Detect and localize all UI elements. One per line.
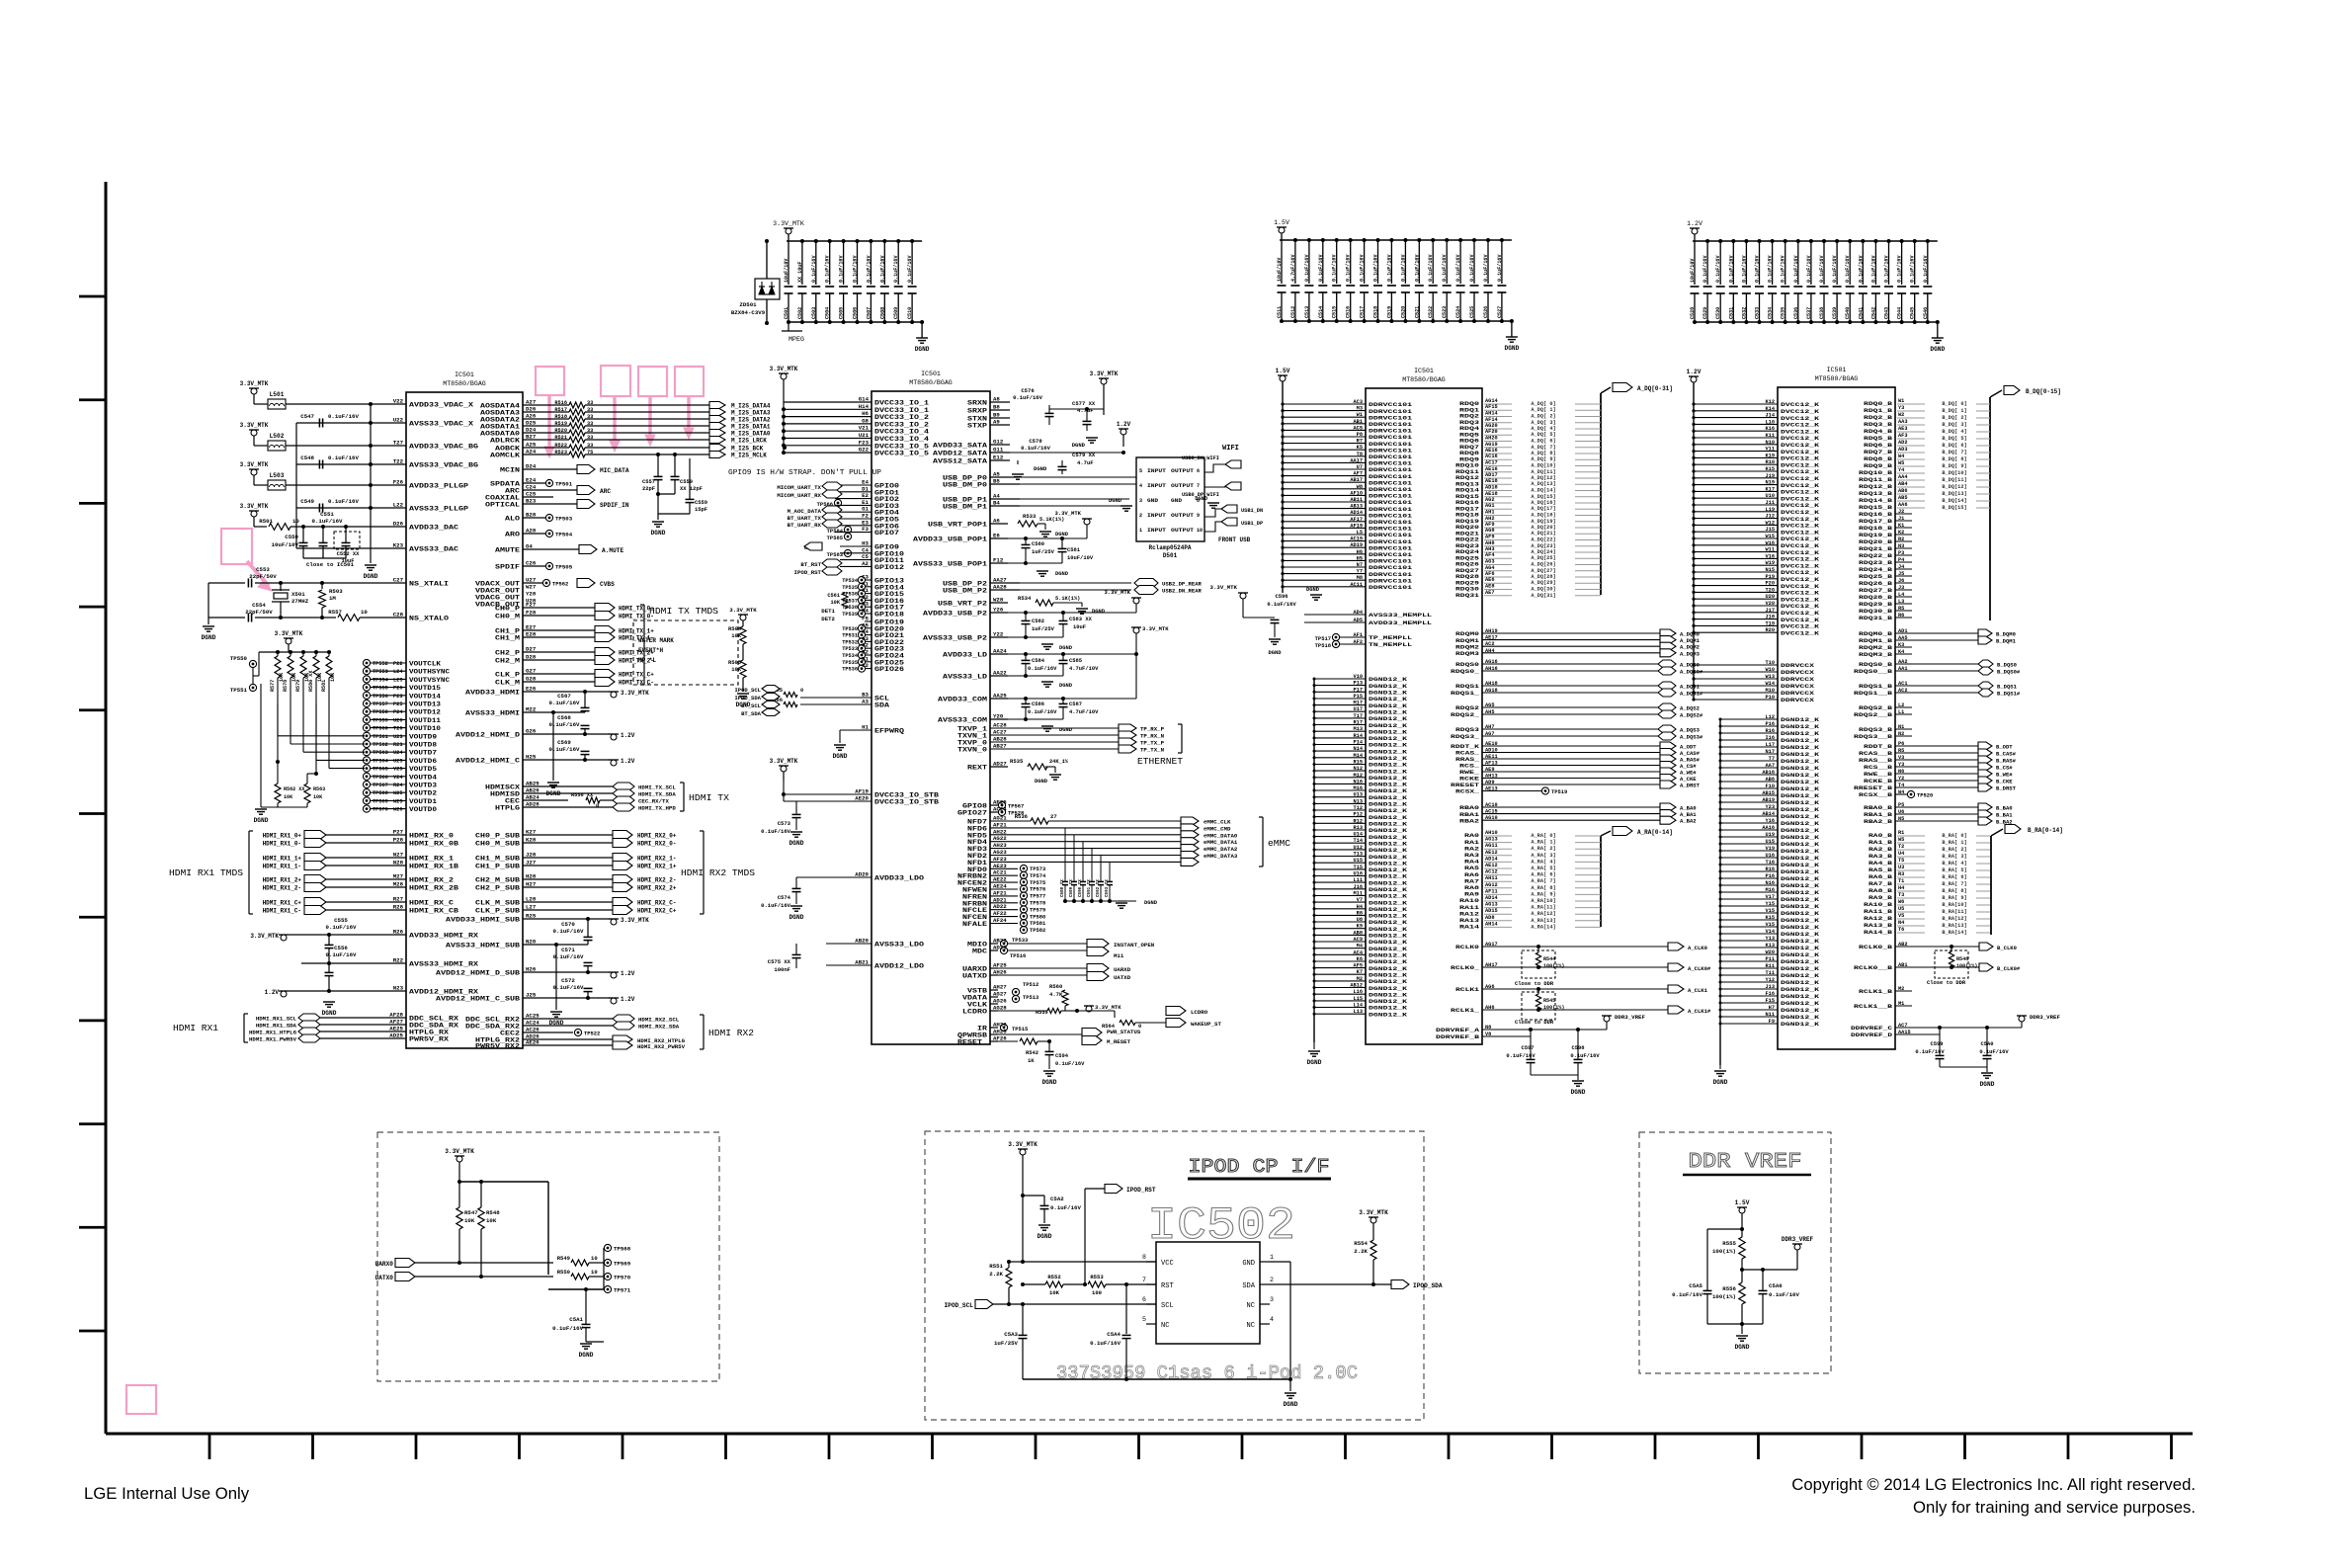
- svg-text:0.1uF/16V: 0.1uF/16V: [1570, 1052, 1600, 1059]
- svg-text:W12: W12: [1766, 520, 1775, 526]
- resistor R542 1K: [998, 1040, 1018, 1042]
- wire DGND12_K pin M12: [1314, 777, 1366, 779]
- svg-text:IC502: IC502: [1147, 1200, 1295, 1252]
- svg-text:10K: 10K: [731, 632, 742, 639]
- wire DGND12_K pin T16: [1720, 864, 1778, 866]
- svg-text:AE18: AE18: [1485, 491, 1498, 497]
- svg-text:AD19: AD19: [1350, 542, 1363, 548]
- svg-text:V15: V15: [1766, 908, 1775, 914]
- svg-text:AVDD33_VDAC_X: AVDD33_VDAC_X: [409, 402, 473, 409]
- svg-text:T26: T26: [393, 726, 402, 732]
- annotation pink arrow 4: [687, 396, 690, 428]
- wire AVSS vertical bus: [370, 404, 372, 548]
- test point TP568: [604, 1244, 611, 1251]
- svg-text:U17: U17: [1354, 706, 1363, 712]
- svg-text:R519: R519: [554, 421, 567, 427]
- svg-text:10K: 10K: [486, 1217, 497, 1224]
- svg-text:C561: C561: [827, 593, 840, 599]
- wire DDRVCC101 pin Y7: [1283, 573, 1366, 575]
- svg-text:DGND: DGND: [1735, 1344, 1750, 1351]
- svg-text:U15: U15: [1354, 858, 1363, 864]
- svg-text:R547: R547: [464, 1209, 478, 1216]
- svg-text:10: 10: [361, 609, 368, 616]
- svg-text:0.1uF/16V: 0.1uF/16V: [1755, 255, 1761, 283]
- svg-text:5: 5: [1142, 1316, 1146, 1323]
- net bracket HDMI TX: [683, 783, 685, 811]
- svg-text:3.3V_MTK: 3.3V_MTK: [275, 630, 303, 637]
- svg-text:AE18: AE18: [1485, 478, 1498, 484]
- svg-text:AVDD33_USB_P2: AVDD33_USB_P2: [923, 611, 987, 618]
- svg-text:SPDATA: SPDATA: [490, 481, 520, 488]
- svg-text:R545: R545: [1543, 998, 1555, 1004]
- svg-text:AD14: AD14: [1485, 895, 1498, 901]
- svg-text:7: 7: [1197, 483, 1200, 489]
- svg-text:TP571: TP571: [614, 1287, 631, 1294]
- wire GPIO18 with test point TP539: [858, 610, 865, 617]
- svg-text:R20: R20: [1766, 627, 1775, 633]
- svg-text:DGND12_K: DGND12_K: [1781, 882, 1820, 889]
- svg-text:T20: T20: [1766, 587, 1775, 593]
- svg-text:AE12: AE12: [1485, 863, 1498, 868]
- svg-text:N13: N13: [1354, 798, 1363, 804]
- svg-text:K19: K19: [1766, 453, 1775, 458]
- svg-text:G8: G8: [862, 417, 869, 424]
- wire DGND12_K bus B block: [1719, 719, 1721, 1065]
- svg-text:B_RA[ 1]: B_RA[ 1]: [1942, 840, 1966, 846]
- wire DDRVCC101 pin R7: [1283, 443, 1366, 445]
- svg-text:DDRVCC101: DDRVCC101: [1369, 584, 1413, 591]
- svg-text:AG3: AG3: [1485, 559, 1494, 565]
- svg-text:AD8: AD8: [1485, 915, 1494, 921]
- svg-text:RRESET_B: RRESET_B: [1854, 784, 1893, 791]
- svg-text:10K: 10K: [464, 1217, 475, 1224]
- svg-text:10uF/10V: 10uF/10V: [1277, 257, 1283, 282]
- wire DGND12_K pin U8: [1314, 921, 1366, 923]
- svg-text:DVCC33_IO_4: DVCC33_IO_4: [874, 436, 929, 443]
- svg-text:L503: L503: [270, 472, 285, 479]
- svg-text:0.1uF/16V: 0.1uF/16V: [328, 454, 359, 461]
- svg-text:AF17: AF17: [1350, 517, 1363, 523]
- svg-text:DGND12_K: DGND12_K: [1781, 917, 1820, 924]
- svg-text:1.5V: 1.5V: [1274, 219, 1289, 226]
- test point TP567 / pin R24 VOUTD3: [363, 781, 370, 787]
- svg-text:10uF/10V: 10uF/10V: [272, 541, 299, 548]
- svg-text:A_DQ[ 0]: A_DQ[ 0]: [1531, 401, 1555, 407]
- svg-text:RDQ11_B: RDQ11_B: [1859, 476, 1893, 483]
- wire DDRVCC101 pin W8: [1283, 488, 1366, 490]
- svg-text:3.3V_MTK: 3.3V_MTK: [770, 366, 798, 372]
- ruler tick bottom 8: [931, 1434, 934, 1459]
- connector flag B_CLK0: [1979, 943, 1993, 950]
- svg-text:A_RA[ 6]: A_RA[ 6]: [1531, 872, 1555, 878]
- ruler tick bottom 2: [311, 1434, 314, 1459]
- svg-text:DVCC33_IO_STB: DVCC33_IO_STB: [874, 792, 939, 799]
- svg-text:DDR3_VREF: DDR3_VREF: [1782, 1236, 1814, 1243]
- svg-text:AOSDATA1: AOSDATA1: [480, 424, 520, 431]
- svg-text:U12: U12: [1354, 845, 1363, 851]
- ruler tick bottom 7: [828, 1434, 831, 1459]
- annotation pink arrow 5 to X501: [247, 561, 269, 586]
- wire DGND12_K pin R11: [1720, 967, 1778, 969]
- svg-text:2.2K: 2.2K: [1354, 1248, 1368, 1255]
- svg-text:C568: C568: [557, 714, 571, 721]
- connector flag USB1_DN: [1221, 505, 1237, 513]
- svg-text:T17: T17: [1354, 713, 1363, 719]
- ground DGND below I2C: [839, 730, 841, 743]
- svg-text:RA10_B: RA10_B: [1864, 901, 1893, 908]
- svg-text:0.1uF/16V: 0.1uF/16V: [1870, 255, 1876, 283]
- svg-text:C533: C533: [1755, 307, 1761, 319]
- svg-text:0.1uF/16V: 0.1uF/16V: [1400, 254, 1406, 282]
- svg-text:RDQ6_B: RDQ6_B: [1864, 442, 1893, 449]
- capacitor C529: [1706, 241, 1708, 285]
- svg-text:DGND12_K: DGND12_K: [1781, 862, 1820, 868]
- svg-text:1uF/25V: 1uF/25V: [994, 1340, 1019, 1347]
- svg-text:BT_SDA: BT_SDA: [741, 710, 762, 717]
- svg-text:B_DQM1: B_DQM1: [1996, 638, 2017, 645]
- svg-text:STXN: STXN: [967, 416, 987, 423]
- svg-text:G14: G14: [859, 396, 870, 403]
- svg-text:0.1uF/16V: 0.1uF/16V: [1910, 255, 1916, 283]
- svg-text:RDQS0__B: RDQS0__B: [1854, 668, 1893, 675]
- svg-text:AVDD12_HDMI_C: AVDD12_HDMI_C: [456, 758, 520, 765]
- svg-text:AVSS33_USB_POP1: AVSS33_USB_POP1: [913, 561, 987, 568]
- svg-text:V10: V10: [1354, 674, 1363, 680]
- svg-text:AD18: AD18: [1485, 485, 1498, 491]
- svg-text:HDMI_RX1_2+: HDMI_RX1_2+: [263, 877, 302, 884]
- svg-text:P25: P25: [393, 701, 402, 707]
- svg-text:TP515: TP515: [1012, 1026, 1028, 1032]
- svg-text:RDQ7_B: RDQ7_B: [1864, 449, 1893, 455]
- svg-text:RDQS2: RDQS2: [1455, 704, 1480, 711]
- ground DGND C5A2: [1038, 1224, 1050, 1226]
- svg-text:J13: J13: [1766, 984, 1775, 990]
- power 3.3V_MTK DVCC33 bus: [779, 372, 789, 374]
- svg-text:B_DQ[ 4]: B_DQ[ 4]: [1942, 429, 1966, 435]
- svg-text:U3: U3: [1898, 865, 1904, 870]
- svg-text:R521: R521: [554, 435, 567, 441]
- svg-text:0.1uF/16V: 0.1uF/16V: [553, 953, 584, 960]
- wire DGND12_K pin P16: [1720, 725, 1778, 727]
- svg-text:CEC_RX/TX: CEC_RX/TX: [638, 798, 669, 805]
- svg-text:VOUTD11: VOUTD11: [409, 717, 441, 724]
- svg-text:WATER MARK: WATER MARK: [638, 637, 674, 644]
- svg-text:V7: V7: [1357, 897, 1363, 903]
- svg-text:DGND: DGND: [364, 573, 378, 580]
- svg-text:NC: NC: [1161, 1322, 1169, 1330]
- svg-text:RDQ18_B: RDQ18_B: [1859, 525, 1893, 532]
- svg-text:R551: R551: [989, 1263, 1003, 1270]
- svg-text:AC27: AC27: [993, 729, 1007, 736]
- wire HDMI_RX_1B: [326, 865, 406, 867]
- svg-text:AE16: AE16: [1485, 466, 1498, 472]
- svg-text:R562 XX: R562 XX: [284, 786, 305, 792]
- border frame left ruler line: [105, 182, 108, 1434]
- svg-text:AG4: AG4: [1485, 565, 1494, 571]
- resistor R504 10K: [740, 626, 746, 644]
- svg-text:DGND: DGND: [1038, 1233, 1052, 1240]
- svg-text:B_DQ[ 1]: B_DQ[ 1]: [1942, 408, 1966, 414]
- test point TP550: [249, 660, 256, 667]
- svg-text:C530: C530: [1715, 307, 1721, 319]
- svg-text:RDQS3_B: RDQS3_B: [1859, 726, 1893, 733]
- capacitor C503: [815, 241, 817, 285]
- svg-text:K12: K12: [1766, 399, 1775, 405]
- wire DVCC12_K pin J18: [1694, 619, 1778, 620]
- svg-text:AH8: AH8: [1485, 540, 1494, 546]
- resistor R547 10K: [458, 1182, 460, 1207]
- svg-text:AC4: AC4: [1354, 949, 1363, 955]
- wires VOUT fanout: [277, 703, 279, 736]
- svg-text:AVDD33_HDMI_SUB: AVDD33_HDMI_SUB: [446, 917, 520, 924]
- svg-text:RBA0_B: RBA0_B: [1864, 804, 1893, 811]
- svg-text:I16: I16: [1766, 735, 1775, 741]
- wire DVCC12_K pin P20: [1694, 585, 1778, 587]
- svg-text:RA2_B: RA2_B: [1868, 846, 1893, 853]
- svg-text:DGND: DGND: [1268, 649, 1282, 656]
- svg-text:Y12: Y12: [1766, 977, 1775, 983]
- svg-text:B_DQ[ 8]: B_DQ[ 8]: [1942, 456, 1966, 462]
- svg-text:1.2V: 1.2V: [621, 996, 635, 1003]
- svg-text:3.3V_MTK: 3.3V_MTK: [1054, 510, 1081, 517]
- svg-text:3.3V_MTK: 3.3V_MTK: [240, 422, 269, 429]
- svg-text:DDR VREF: DDR VREF: [1689, 1151, 1802, 1174]
- svg-text:AA16: AA16: [1762, 825, 1775, 831]
- ground DGND VREF box: [1741, 1324, 1743, 1334]
- wire AVDD33_VDAC_BG: [286, 445, 406, 447]
- svg-text:5: 5: [1139, 468, 1142, 474]
- svg-text:CH1_P_SUB: CH1_P_SUB: [475, 864, 520, 870]
- svg-text:MPEG: MPEG: [789, 336, 804, 343]
- svg-text:C572: C572: [561, 977, 575, 984]
- wire DGND12_K pin P17: [1314, 691, 1366, 693]
- svg-text:AVSS33_LDO: AVSS33_LDO: [874, 942, 924, 949]
- svg-text:IC501: IC501: [1827, 367, 1847, 373]
- svg-text:Y23: Y23: [1766, 804, 1775, 810]
- svg-text:N16: N16: [1766, 880, 1775, 886]
- svg-text:AA4: AA4: [1898, 474, 1907, 480]
- svg-text:0.1uF/16V: 0.1uF/16V: [1819, 255, 1825, 283]
- wire DGND12_K pin R14: [1314, 737, 1366, 739]
- capacitor C507: [870, 241, 872, 285]
- svg-text:AH10: AH10: [1485, 830, 1498, 836]
- svg-text:0.1uF/16V: 0.1uF/16V: [328, 413, 359, 420]
- capacitor C546: [1927, 241, 1929, 285]
- annotation pink box 4: [675, 367, 704, 396]
- svg-text:A_DQ[28]: A_DQ[28]: [1531, 574, 1555, 580]
- svg-text:U26: U26: [393, 717, 402, 723]
- svg-text:CH1_P: CH1_P: [495, 628, 520, 635]
- wire GPIO25: [858, 658, 865, 665]
- svg-text:CH2_P_SUB: CH2_P_SUB: [475, 885, 520, 892]
- svg-text:1.2V: 1.2V: [621, 758, 635, 765]
- svg-text:A2: A2: [862, 560, 869, 567]
- svg-text:MDC: MDC: [972, 949, 987, 955]
- svg-text:A_DQ[20]: A_DQ[20]: [1531, 525, 1555, 531]
- svg-text:J19: J19: [1766, 473, 1775, 479]
- svg-text:TP534: TP534: [842, 653, 858, 659]
- resistor R552 10K: [1023, 1283, 1045, 1285]
- svg-text:DGND: DGND: [1713, 1079, 1728, 1086]
- svg-text:V22: V22: [393, 398, 404, 405]
- wire cap bank bottom bus 1.5V: [1282, 320, 1512, 322]
- svg-text:C506: C506: [853, 307, 859, 319]
- svg-text:DDC_SCL_RX: DDC_SCL_RX: [409, 1016, 458, 1023]
- svg-text:C505: C505: [839, 307, 845, 319]
- svg-text:22pF/50V: 22pF/50V: [245, 609, 273, 616]
- svg-text:V11: V11: [1766, 447, 1775, 453]
- svg-text:C543: C543: [1884, 307, 1890, 319]
- svg-text:R10: R10: [1766, 459, 1775, 465]
- svg-text:A_DQ[31]: A_DQ[31]: [1531, 593, 1555, 599]
- svg-text:DGND12_K: DGND12_K: [1781, 820, 1820, 827]
- capacitor bank C501-C510 MPEG 3.3V_MTK: [784, 227, 793, 229]
- svg-text:DGND12_K: DGND12_K: [1781, 958, 1820, 965]
- wire GPIO12: [840, 565, 872, 567]
- svg-text:TXVP_0: TXVP_0: [957, 740, 987, 747]
- svg-text:UARX0: UARX0: [375, 1261, 394, 1268]
- wire DGND12_K pin V17: [1720, 898, 1778, 900]
- svg-text:DGND12_K: DGND12_K: [1781, 938, 1820, 945]
- svg-text:BZX84-C3V9: BZX84-C3V9: [731, 309, 766, 316]
- svg-text:3: 3: [1270, 1296, 1274, 1303]
- test point TP557 / pin P25 VOUTD13: [363, 700, 370, 706]
- svg-text:2: 2: [1270, 1277, 1274, 1283]
- wire net M_I2S_DATA2: [585, 418, 709, 420]
- svg-text:P28: P28: [393, 837, 404, 844]
- capacitor C551 0.1uF/16V: [322, 527, 324, 542]
- svg-text:VOUTD3: VOUTD3: [409, 783, 437, 789]
- svg-text:TP535: TP535: [842, 585, 858, 591]
- svg-text:B3: B3: [862, 692, 869, 699]
- svg-text:N28: N28: [393, 860, 404, 867]
- svg-text:PWR5V_RX2: PWR5V_RX2: [475, 1043, 520, 1050]
- svg-text:L5: L5: [1357, 530, 1363, 536]
- wire DGND12_K pin U17: [1314, 710, 1366, 712]
- wire HDMI_RX_1: [326, 857, 406, 859]
- svg-text:R581: R581: [321, 680, 327, 692]
- svg-text:B_DQS0: B_DQS0: [1997, 662, 2017, 669]
- svg-text:L17: L17: [1766, 742, 1775, 748]
- svg-text:R556: R556: [1722, 1285, 1736, 1292]
- svg-text:H4: H4: [1357, 904, 1363, 910]
- wire HDMI_RX_CB: [326, 909, 406, 911]
- svg-text:AB14: AB14: [1762, 811, 1775, 817]
- wire GPIO14 with test point TP535: [858, 583, 865, 590]
- svg-text:0.1uF/16V: 0.1uF/16V: [1318, 254, 1324, 282]
- svg-text:C593 XX: C593 XX: [1105, 879, 1110, 897]
- svg-text:RCKE_B: RCKE_B: [1864, 778, 1893, 784]
- wire DVCC12_K pin W15: [1694, 537, 1778, 539]
- svg-text:OUTPUT: OUTPUT: [1171, 528, 1194, 534]
- net bracket eMMC: [1262, 817, 1264, 867]
- power 3.3V_MTK IPOD right: [1369, 1216, 1378, 1218]
- svg-text:GPIO9 IS H/W STRAP. DON'T PULL: GPIO9 IS H/W STRAP. DON'T PULL UP: [728, 469, 881, 477]
- svg-text:H14: H14: [859, 403, 870, 410]
- svg-text:B_DQ[12]: B_DQ[12]: [1942, 484, 1966, 490]
- svg-text:EVENT*H: EVENT*H: [638, 647, 663, 654]
- svg-text:HDMI_RX1_C+: HDMI_RX1_C+: [263, 900, 302, 907]
- svg-text:P20: P20: [1766, 581, 1775, 587]
- svg-text:N19: N19: [1766, 480, 1775, 486]
- svg-text:C540: C540: [1845, 307, 1851, 319]
- svg-text:AVDD33_PLLGP: AVDD33_PLLGP: [409, 483, 468, 490]
- wire DGND12_K pin U12: [1314, 849, 1366, 851]
- wire DVCC12_K pin V20: [1694, 605, 1778, 607]
- svg-text:AF3: AF3: [1898, 433, 1907, 439]
- svg-text:RDQ9_B: RDQ9_B: [1864, 462, 1893, 469]
- svg-text:P26: P26: [393, 686, 402, 692]
- svg-text:1: 1: [1139, 528, 1142, 534]
- svg-text:R557: R557: [328, 609, 342, 616]
- svg-text:B_ODT: B_ODT: [1996, 744, 2013, 751]
- wire VREF node: [1742, 1269, 1797, 1271]
- capacitor C594 0.1uF/16V: [1048, 1041, 1050, 1051]
- wire DGND12_K pin T15: [1314, 868, 1366, 870]
- svg-text:AG1: AG1: [1485, 503, 1494, 509]
- svg-text:1.2V: 1.2V: [1117, 421, 1131, 428]
- svg-text:HDMI_TX_C+: HDMI_TX_C+: [619, 672, 654, 679]
- svg-text:R518: R518: [554, 414, 567, 420]
- svg-text:C536: C536: [1793, 307, 1799, 319]
- svg-text:RCLK0__B: RCLK0__B: [1854, 964, 1893, 971]
- wire DDRVCC101 pin K5: [1283, 449, 1366, 451]
- svg-text:10K: 10K: [731, 666, 742, 673]
- wire DGND12_K pin T17: [1314, 717, 1366, 719]
- svg-text:SDA: SDA: [874, 702, 889, 709]
- svg-text:C571: C571: [561, 947, 575, 953]
- svg-text:V19: V19: [1766, 846, 1775, 852]
- svg-text:C517: C517: [1360, 306, 1366, 318]
- svg-text:AVSS33_COM: AVSS33_COM: [938, 717, 987, 724]
- svg-text:R16: R16: [1766, 867, 1775, 872]
- svg-text:2: 2: [1139, 513, 1142, 519]
- power 3.3V_MTK IPOD left: [1018, 1148, 1028, 1150]
- svg-text:DGND12_K: DGND12_K: [1781, 723, 1820, 730]
- svg-text:Close to DDR: Close to DDR: [1515, 1019, 1554, 1026]
- connector flag USB0_DP_WIFI: [1225, 482, 1241, 490]
- wire net M_I2S_DATA1: [585, 425, 709, 427]
- svg-text:C504: C504: [825, 307, 831, 319]
- svg-text:R552: R552: [1047, 1274, 1060, 1280]
- svg-text:AVSS12_SATA: AVSS12_SATA: [933, 458, 987, 465]
- test point TP554 / pin L25 VOUTVSYNC: [363, 676, 370, 683]
- svg-text:AVDD33_USB_POP1: AVDD33_USB_POP1: [913, 536, 987, 543]
- svg-text:NFALE: NFALE: [962, 921, 987, 928]
- ruler tick bottom 6: [724, 1434, 727, 1459]
- capacitor C539: [1836, 241, 1838, 285]
- svg-text:DGND12_K: DGND12_K: [1781, 993, 1820, 1000]
- svg-text:N11: N11: [1766, 1012, 1775, 1018]
- svg-text:C585: C585: [1069, 657, 1082, 664]
- wire GPIO16 with test point TP537: [858, 597, 865, 604]
- svg-text:P15: P15: [1354, 694, 1363, 700]
- svg-text:CEC2: CEC2: [500, 1031, 520, 1037]
- svg-text:H5: H5: [1357, 555, 1363, 561]
- wire DGND12_K pin R17: [1314, 724, 1366, 726]
- svg-text:IR: IR: [977, 1026, 987, 1032]
- svg-text:OPTICAL: OPTICAL: [485, 502, 520, 509]
- wire GPIO6: [835, 525, 872, 527]
- svg-text:NC: NC: [1247, 1302, 1255, 1310]
- connector flag LCDRO: [1166, 1007, 1186, 1016]
- svg-text:10: 10: [1197, 528, 1203, 534]
- wire DGND12_K pin N11: [1720, 1016, 1778, 1018]
- wire DVCC12_K pin J19: [1694, 477, 1778, 479]
- svg-text:C520: C520: [1400, 306, 1406, 318]
- svg-text:1: 1: [1270, 1254, 1274, 1261]
- svg-text:L25: L25: [393, 677, 402, 683]
